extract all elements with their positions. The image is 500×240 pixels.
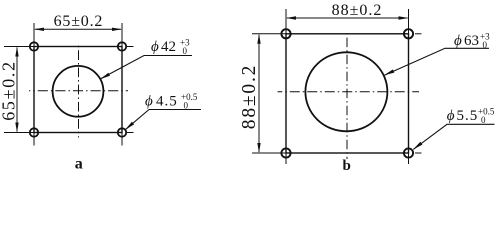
svg-text:0: 0 [183,46,188,56]
svg-text:0: 0 [483,40,488,50]
svg-text:4.5: 4.5 [156,94,178,110]
svg-text:a: a [75,156,83,173]
svg-text:5.5: 5.5 [457,108,479,124]
svg-text:0: 0 [481,115,486,125]
svg-text:88±0.2: 88±0.2 [332,2,383,19]
svg-text:65±0.2: 65±0.2 [0,60,19,121]
svg-text:ϕ: ϕ [145,94,153,110]
svg-text:63: 63 [464,33,479,49]
svg-text:0: 0 [184,101,189,111]
svg-text:ϕ: ϕ [454,33,462,49]
svg-text:ϕ: ϕ [447,108,455,124]
svg-text:ϕ: ϕ [151,39,159,55]
svg-text:b: b [343,158,351,173]
svg-text:65±0.2: 65±0.2 [54,13,104,30]
svg-text:42: 42 [161,39,176,55]
svg-text:88±0.2: 88±0.2 [239,64,260,129]
